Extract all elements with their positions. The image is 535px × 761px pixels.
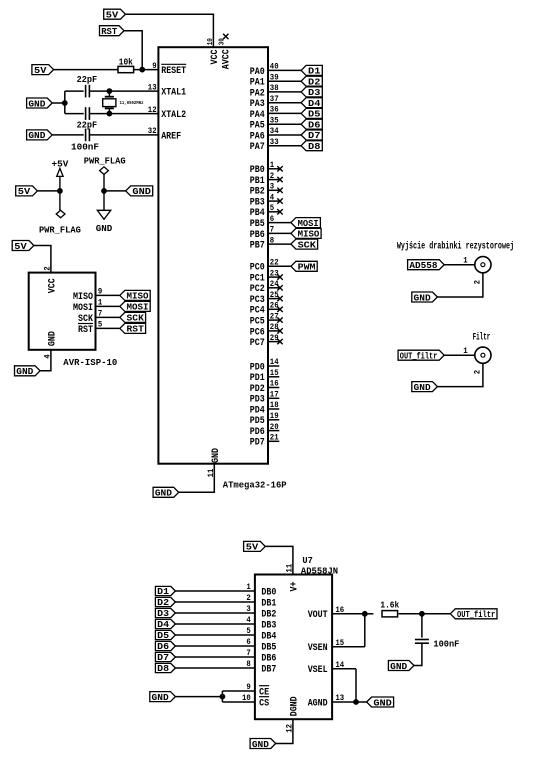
svg-text:GND: GND [390,661,407,672]
power label GND (ic bottom) [153,487,179,497]
svg-text:PD2: PD2 [250,384,265,395]
svg-text:GND: GND [28,98,45,109]
svg-text:34: 34 [270,126,279,136]
svg-text:SCK: SCK [127,313,145,324]
pin 24 PC2 (no connect) [268,287,280,289]
svg-text:28: 28 [270,322,279,332]
svg-text:1: 1 [463,346,467,356]
svg-text:VCC: VCC [210,50,221,65]
capacitor C 22pF (XTAL1) [85,85,87,98]
svg-text:1: 1 [463,255,467,265]
svg-text:GND: GND [414,292,431,303]
wire XTAL2 line [65,113,84,115]
svg-text:GND: GND [155,488,172,499]
svg-text:PB5: PB5 [250,219,265,230]
power label GND (isp) [15,366,41,376]
pin 8 DB7 / label D8 [175,667,255,669]
pin 2 DB1 / label D2 [175,601,255,603]
svg-text:DB3: DB3 [261,620,276,631]
wire VOUT to resistor [365,613,374,615]
svg-text:35: 35 [270,115,279,125]
svg-text:5: 5 [246,626,250,636]
pin 29 PC7 (no connect) [268,341,280,343]
svg-text:PB0: PB0 [250,165,265,176]
svg-text:PC6: PC6 [250,327,265,338]
svg-text:11: 11 [284,564,294,573]
capacitor C 100nF (AREF) [85,129,87,142]
svg-text:PB1: PB1 [250,176,265,187]
power label 5V (top) [104,9,126,19]
svg-text:PA2: PA2 [250,88,265,99]
svg-text:ATmega32-16P: ATmega32-16P [223,480,287,491]
svg-text:PC3: PC3 [250,295,265,306]
svg-text:5: 5 [98,320,102,330]
power symbol PWR_FLAG (left) [59,191,61,210]
svg-text:D3: D3 [157,609,169,619]
svg-text:XTAL1: XTAL1 [161,88,186,99]
svg-text:AREF: AREF [161,131,181,142]
svg-text:PA3: PA3 [250,99,265,110]
svg-text:D7: D7 [157,653,169,663]
svg-text:PA1: PA1 [250,78,265,89]
label OUT_filtr (out) [450,609,497,619]
svg-text:GND: GND [414,382,431,393]
svg-text:PD6: PD6 [250,427,265,438]
svg-text:PB7: PB7 [250,241,265,252]
svg-text:PB4: PB4 [250,208,265,219]
svg-text:DB0: DB0 [261,587,276,598]
node junction crystal top [107,89,112,94]
pin 28 PC6 (no connect) [268,330,280,332]
pin 3 DB2 / label D3 [175,612,255,614]
pin 5 PB4 (no connect) [268,211,280,213]
svg-text:CS: CS [259,698,269,709]
pin 21 PD7 [268,440,279,442]
label AD558 [408,260,445,270]
svg-text:5V: 5V [246,542,259,553]
capacitor 100nF (out) [415,639,429,641]
svg-text:4: 4 [270,192,274,202]
pin 4 DB3 / label D4 [175,623,255,625]
pin 5 DB4 / label D5 [175,634,255,636]
svg-text:40: 40 [270,62,279,72]
pin 23 PC1 (no connect) [268,276,280,278]
svg-text:9: 9 [152,61,156,71]
wire RST to RESET node [124,31,142,70]
pin 3 PB2 (no connect) [268,189,280,191]
svg-text:RST: RST [101,26,117,37]
svg-text:3: 3 [270,182,274,192]
svg-text:9: 9 [98,287,102,297]
svg-text:PB3: PB3 [250,198,265,209]
svg-text:PB6: PB6 [250,230,265,241]
pin 33 PA7 / label D8 [268,145,301,147]
power label GND (dgnd) [250,739,276,749]
connector P1 (drabinka) [475,257,491,273]
svg-text:PC5: PC5 [250,317,265,328]
svg-text:D7: D7 [308,130,321,141]
svg-text:MISO: MISO [298,229,320,240]
resistor 1.6k [382,611,398,617]
svg-text:PD7: PD7 [250,438,265,449]
pin 2 conn1 / wire to GND [437,273,483,297]
wire pin1 conn1 [444,264,475,266]
svg-text:24: 24 [270,279,279,289]
svg-text:9: 9 [246,682,250,692]
svg-text:DB4: DB4 [261,631,276,642]
svg-text:D8: D8 [308,141,321,152]
pin 25 PC3 (no connect) [268,298,280,300]
pin 1 DB0 / label D1 [175,590,255,592]
svg-text:D4: D4 [308,98,321,109]
svg-text:GND: GND [16,366,33,377]
resistor 10k [118,66,134,72]
wire XTAL1 line [65,90,84,92]
label OUT_filtr (conn2) [398,350,444,360]
svg-text:Wyjście drabinki rezystorowej: Wyjście drabinki rezystorowej [397,240,514,251]
svg-text:DB6: DB6 [261,653,276,664]
capacitor C 22pF (XTAL2) [85,107,87,120]
op ic U1 ATmega32-16P body [158,47,268,464]
svg-text:1.6k: 1.6k [380,601,399,611]
svg-text:D3: D3 [308,87,321,98]
svg-text:GND: GND [28,130,45,141]
svg-text:7: 7 [98,309,102,319]
svg-text:21: 21 [270,433,279,443]
connector J1 AVR-ISP-10 body [29,273,96,350]
svg-text:6: 6 [246,637,250,647]
pin 38 PA2 / label D3 [268,91,301,93]
svg-text:PWR_FLAG: PWR_FLAG [39,224,81,235]
svg-text:1: 1 [270,160,274,170]
power label GND (ce/cs) [150,692,176,702]
pin 2 conn2 / wire to GND [437,363,483,386]
svg-text:PD5: PD5 [250,416,265,427]
node junction crystal bottom [107,111,112,116]
svg-text:PA5: PA5 [250,121,265,132]
svg-text:V+: V+ [289,582,300,592]
svg-text:1: 1 [246,582,250,592]
svg-text:U7: U7 [302,555,312,566]
svg-text:PA7: PA7 [250,142,265,153]
pin 40 PA0 / label D1 [268,69,301,71]
svg-text:GND: GND [132,186,151,197]
svg-text:D1: D1 [308,66,321,77]
svg-text:6: 6 [270,214,274,224]
power label GND (agnd) [367,697,394,707]
pin 12 XTAL2 [157,113,159,115]
node junction out/cap [420,611,425,616]
pin 34 PA6 / label D7 [268,134,301,136]
pin 17 PD3 [268,397,279,399]
wire GND pin to label [179,464,215,493]
pin 7 SCK (isp) / label SCK [96,316,120,318]
svg-text:15: 15 [270,368,279,378]
power label GND (conn1) [412,292,438,302]
svg-text:PD0: PD0 [250,362,265,373]
svg-text:PD3: PD3 [250,395,265,406]
svg-text:2: 2 [473,370,483,374]
svg-text:20: 20 [270,422,279,432]
wire resistor to out node [399,613,451,615]
svg-text:PWR_FLAG: PWR_FLAG [84,156,126,167]
svg-text:VOUT: VOUT [308,610,328,621]
power label 5V (dac) [244,541,266,551]
wire CE/CS tie [221,691,223,702]
pin 27 PC5 (no connect) [268,319,280,321]
wire VSEL to AGND [355,669,357,702]
svg-text:2: 2 [43,266,53,270]
svg-text:D6: D6 [308,120,321,131]
svg-text:AD558JN: AD558JN [301,565,338,576]
wire 5V to VCC pin 10 [125,14,213,47]
svg-text:PD4: PD4 [250,405,265,416]
pin 39 PA1 / label D2 [268,80,301,82]
svg-text:37: 37 [270,94,279,104]
node junction VSEL/AGND [354,700,359,705]
pin 1 MOSI (isp) / label MOSI [96,305,120,307]
svg-text:DB1: DB1 [261,598,276,609]
svg-text:7: 7 [246,648,250,658]
svg-text:17: 17 [270,390,279,400]
power label GND (100nF) [388,661,414,671]
svg-text:14: 14 [270,357,279,367]
pin 8 PB7 / label SCK [268,243,291,245]
svg-text:18: 18 [270,400,279,410]
svg-text:22pF: 22pF [77,74,98,85]
pin 2 PB1 (no connect) [268,179,280,181]
svg-text:PC4: PC4 [250,306,265,317]
pin 6 DB5 / label D6 [175,645,255,647]
svg-text:PC0: PC0 [250,263,265,274]
svg-text:5V: 5V [18,186,31,197]
pin 9 MISO (isp) / label MISO [96,294,120,296]
svg-text:PWM: PWM [298,262,316,273]
node junction gnd/pwr_flag [102,189,107,194]
svg-text:100nF: 100nF [433,639,459,650]
wire VSEN to VOUT [364,614,366,647]
pin 19 PD5 [268,419,279,421]
svg-text:GND: GND [373,697,392,708]
pin 7 PB6 / label MISO [268,232,291,234]
svg-text:D5: D5 [157,631,169,641]
power label GND (conn2) [412,382,438,392]
svg-text:38: 38 [270,83,279,93]
pin 37 PA3 / label D4 [268,102,301,104]
svg-text:29: 29 [270,333,279,343]
svg-text:VSEL: VSEL [308,665,328,676]
svg-text:100nF: 100nF [71,141,99,152]
svg-text:GND: GND [211,448,222,463]
svg-text:12: 12 [148,105,157,115]
svg-text:25: 25 [270,290,279,300]
pin 10 CS [222,701,255,703]
svg-text:DB5: DB5 [261,642,276,653]
crystal X1 [108,91,110,97]
svg-text:22pF: 22pF [77,120,98,131]
svg-text:30: 30 [219,38,227,46]
svg-text:10: 10 [242,693,251,703]
svg-text:1: 1 [98,298,102,308]
svg-text:RESET: RESET [161,66,186,77]
svg-text:VCC: VCC [47,278,58,293]
power label 5V (isp) [12,241,34,251]
svg-text:PD1: PD1 [250,373,265,384]
pin 13 XTAL1 [157,90,159,92]
svg-text:OUT_filtr: OUT_filtr [400,351,438,362]
power label GND (xtal) [27,98,53,108]
svg-text:AVCC: AVCC [221,49,232,69]
svg-text:22: 22 [270,258,279,268]
wire out node to capacitor [421,614,423,638]
svg-text:PC1: PC1 [250,274,265,285]
pin 14 PD0 [268,365,279,367]
wire pin1 conn2 [444,354,475,356]
svg-text:DB7: DB7 [261,664,276,675]
svg-text:33: 33 [270,137,279,147]
pin 15 PD1 [268,376,279,378]
svg-text:MOSI: MOSI [298,218,319,229]
pin 35 PA5 / label D6 [268,123,301,125]
svg-text:10k: 10k [119,57,134,67]
svg-text:D5: D5 [308,109,321,120]
svg-text:4: 4 [246,615,250,625]
svg-text:27: 27 [270,311,279,321]
pin 32 AREF [157,134,159,136]
node junction ce/cs gnd [220,694,225,699]
svg-text:GND: GND [47,331,58,346]
pin 26 PC4 (no connect) [268,308,280,310]
node junction 5V/pwr_flag [58,189,63,194]
svg-text:5V: 5V [14,241,27,252]
svg-text:PA6: PA6 [250,131,265,142]
svg-text:RST: RST [127,324,145,335]
svg-text:PA4: PA4 [250,110,265,121]
svg-text:GND: GND [252,739,269,750]
node junction gnd/caps [62,101,67,106]
power label GND (AREF) [27,130,53,140]
pin 7 DB6 / label D7 [175,656,255,658]
dac U7 AD558JN body [255,575,332,720]
svg-text:Filtr: Filtr [473,331,491,342]
wire resistor to RESET pin [134,69,159,71]
svg-text:5: 5 [270,203,274,213]
svg-text:MISO: MISO [73,292,93,303]
pin 1 PB0 (no connect) [268,168,280,170]
wire capacitor to GND [414,643,422,665]
svg-text:23: 23 [270,268,279,278]
svg-text:OUT_filtr: OUT_filtr [457,609,495,620]
svg-text:5V: 5V [106,10,119,21]
svg-text:PC2: PC2 [250,284,265,295]
svg-text:AGND: AGND [308,698,328,709]
svg-text:GND: GND [96,223,113,234]
wire 5V to V+ pin 11 [265,546,293,574]
svg-text:RST: RST [78,325,93,336]
svg-text:PB2: PB2 [250,187,265,198]
svg-text:8: 8 [270,235,274,245]
pin 5 RST (isp) / label RST [96,327,120,329]
svg-text:11,0592MHz: 11,0592MHz [120,102,144,106]
svg-text:D2: D2 [157,598,169,608]
pin 18 PD4 [268,408,279,410]
svg-text:16: 16 [270,379,279,389]
pin 16 PD2 [268,387,279,389]
svg-text:D6: D6 [157,642,169,652]
svg-text:D4: D4 [157,620,170,630]
pin 9 RESET [157,69,159,71]
power label GND (pwr flag) [126,186,153,196]
svg-text:PC7: PC7 [250,338,265,349]
svg-text:AD558: AD558 [409,260,437,271]
svg-text:39: 39 [270,72,279,82]
svg-text:VSEN: VSEN [308,643,328,654]
pin 22 PC0 / label PWM [268,265,291,267]
node junction VOUT/VSEN [362,611,367,616]
connector P2 (filtr) [475,347,491,363]
wire 5V to VCC pin 2 [34,246,51,273]
svg-text:19: 19 [270,411,279,421]
svg-text:2: 2 [270,171,274,181]
wire AREF line [52,134,83,136]
svg-text:2: 2 [246,593,250,603]
svg-text:DGND: DGND [289,696,300,716]
svg-text:7: 7 [270,225,274,235]
svg-text:32: 32 [148,126,157,136]
svg-text:XTAL2: XTAL2 [161,110,186,121]
pin 4 PB3 (no connect) [268,200,280,202]
svg-text:13: 13 [148,82,157,92]
ground symbol GND [103,191,105,210]
svg-text:MISO: MISO [127,291,149,302]
svg-text:26: 26 [270,301,279,311]
node junction RESET/RST [140,67,145,72]
svg-text:AVR-ISP-10: AVR-ISP-10 [63,357,117,368]
svg-text:D2: D2 [308,76,321,87]
wire GND pin to label [40,350,51,371]
pin 6 PB5 / label MOSI [268,222,291,224]
wire 5V to resistor [54,69,118,71]
wire gnd vertical (xtal caps) [64,91,66,114]
svg-text:DB2: DB2 [261,609,276,620]
svg-text:36: 36 [270,105,279,115]
svg-text:10: 10 [207,38,215,46]
svg-text:D8: D8 [157,664,169,674]
svg-text:2: 2 [473,280,483,284]
pin 9 CE [222,690,255,692]
svg-text:3: 3 [246,604,250,614]
power label 5V (reset pullup) [32,65,54,75]
svg-text:MOSI: MOSI [73,303,93,314]
svg-text:8: 8 [246,659,250,669]
svg-text:D1: D1 [157,587,170,597]
svg-text:5V: 5V [34,65,47,76]
svg-text:SCK: SCK [298,239,317,250]
label RST (top) [100,26,125,36]
svg-text:MOSI: MOSI [127,302,149,313]
svg-text:PA0: PA0 [250,67,265,78]
pin 36 PA4 / label D5 [268,112,301,114]
power label 5V (pwr flag) [16,186,38,196]
pin 20 PD6 [268,430,279,432]
svg-text:GND: GND [152,692,169,703]
